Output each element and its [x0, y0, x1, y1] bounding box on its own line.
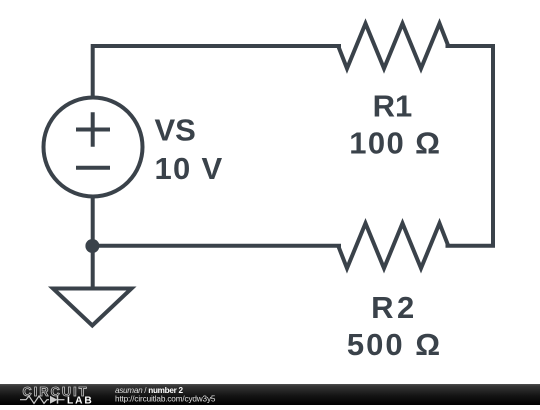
resistor R1 (zigzag body) [338, 24, 448, 69]
wire from R2 left to node A [93, 244, 341, 248]
svg-text:10 V: 10 V [155, 151, 224, 186]
minus sign [76, 166, 110, 170]
node A junction dot [85, 239, 99, 253]
svg-text:R1: R1 [373, 89, 413, 124]
wire from VS bottom terminal through node A down to ground [91, 197, 95, 288]
svg-text:100 Ω: 100 Ω [349, 126, 441, 161]
wire from VS top terminal up and right to R1 [93, 46, 341, 97]
svg-text:VS: VS [155, 113, 196, 148]
VS circle body [44, 98, 143, 197]
logo diode [50, 396, 58, 404]
voltage source VS [44, 98, 143, 197]
resistor R2 (zigzag body) [338, 223, 448, 268]
svg-text:500 Ω: 500 Ω [347, 327, 442, 362]
ground [53, 289, 132, 326]
wire from R1 right along right rail down to R2 [446, 46, 494, 246]
plus sign [76, 112, 110, 146]
logo zigzag wire [20, 396, 49, 403]
svg-text:http://circuitlab.com/cydw3y5: http://circuitlab.com/cydw3y5 [115, 394, 216, 403]
svg-text:R2: R2 [371, 290, 418, 325]
svg-text:LAB: LAB [67, 396, 94, 406]
